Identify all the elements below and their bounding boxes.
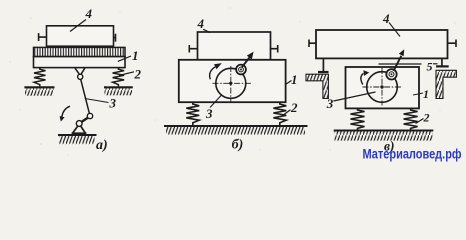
svg-text:1: 1 (291, 72, 298, 87)
left hanger leg (v) (322, 59, 324, 74)
right fixed bracket (v) (436, 70, 456, 98)
leader to label 1 (b) (285, 81, 292, 85)
svg-text:4: 4 (382, 11, 390, 26)
crank link (a) (81, 118, 88, 122)
svg-text:Материаловед.рф: Материаловед.рф (363, 147, 462, 162)
vibrator body rect 1 (b) (179, 60, 286, 102)
force arrow (b) (242, 56, 251, 67)
leader to label 3 (v) (334, 92, 376, 101)
left fixed bracket (v) (306, 74, 328, 98)
clamp right (b) (271, 45, 278, 53)
eccentric circle 3 (b) (216, 68, 246, 98)
svg-text:5: 5 (427, 60, 433, 74)
ground block left (a) (24, 86, 54, 88)
svg-text:2: 2 (134, 67, 142, 82)
crank pivot circle (a) (76, 121, 82, 127)
connecting rod 3 (a) (81, 79, 90, 113)
clamp left (v) (309, 40, 316, 48)
eccentric circle 3 (v) (367, 72, 398, 103)
clamp left (b) (189, 45, 197, 53)
svg-text:2: 2 (423, 111, 430, 125)
right T-bar (v) (436, 65, 449, 67)
leader to label 2 (v) (416, 119, 424, 124)
spring right (v) (404, 108, 418, 129)
svg-text:б): б) (232, 138, 244, 153)
right hanger leg (v) (441, 59, 443, 67)
svg-text:4: 4 (85, 6, 93, 21)
workpiece rect 4 (a) (47, 26, 114, 46)
spring left (b) (186, 102, 199, 125)
vibrator mounting flange (v) (379, 63, 422, 65)
leader to label 1 (v) (413, 93, 423, 95)
ground line (b) (164, 125, 308, 127)
leader to label 4 (b) (203, 29, 210, 32)
svg-text:3: 3 (109, 96, 117, 111)
rotation arrow (v) (361, 73, 364, 84)
svg-text:2: 2 (290, 100, 298, 115)
table bar 1 (a) (34, 57, 126, 68)
leader to label 4 (a) (70, 20, 86, 32)
vibrator body rect 1 (v) (346, 67, 420, 108)
rotation arrow (b) (210, 67, 216, 80)
hinge pin circle (a) (78, 74, 83, 79)
leader to label 1 (a) (118, 56, 131, 61)
rotation arrow (a) (62, 106, 70, 116)
svg-text:3: 3 (205, 106, 213, 121)
platen hatched strip (a) (34, 47, 126, 56)
spring left (v) (351, 108, 365, 129)
plate rect 4 (v) (316, 30, 448, 58)
leader to label 2 (a) (119, 72, 134, 76)
leader to label 2 (b) (283, 110, 291, 116)
svg-text:а): а) (96, 138, 108, 153)
pivot support triangle (a) (72, 126, 87, 133)
spring left (a) (34, 67, 46, 86)
clamp right (v) (448, 40, 457, 48)
leader to label 3 (a) (85, 99, 109, 103)
leader to label 4 (v) (389, 23, 400, 37)
hinge bracket under table (a) (75, 68, 85, 75)
left T-bar (v) (318, 71, 329, 73)
leader to label 5 (v) (433, 63, 438, 65)
clamp right (a) (114, 34, 116, 42)
ground line under crank (a) (58, 134, 97, 136)
crank pin circle (a) (87, 113, 92, 118)
leader to label 3 (b) (210, 95, 222, 108)
center cross (v) (363, 86, 403, 88)
svg-text:1: 1 (423, 87, 429, 101)
paper speckles (9, 7, 456, 156)
center cross (b) (213, 82, 252, 84)
svg-text:3: 3 (326, 96, 334, 111)
ground block right (a) (104, 86, 133, 88)
svg-text:4: 4 (197, 16, 205, 31)
spring right (b) (273, 102, 286, 125)
force arrow (v) (394, 56, 402, 71)
ground line (v) (334, 130, 434, 132)
svg-text:1: 1 (132, 48, 139, 63)
paper background (0, 0, 466, 164)
clamp left (a) (39, 33, 47, 41)
spring right (a) (113, 67, 125, 86)
eccentric pin (v) (386, 69, 396, 79)
eccentric pin (b) (236, 65, 246, 75)
workpiece rect 4 (b) (198, 32, 271, 60)
